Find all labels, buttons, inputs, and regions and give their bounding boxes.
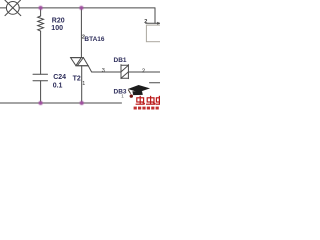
off-sheet component box — [146, 25, 161, 42]
watermark cap board — [128, 85, 150, 92]
svg-text:2: 2 — [82, 35, 85, 41]
wire bottom rail — [0, 102, 122, 104]
svg-text:1: 1 — [121, 94, 124, 99]
svg-text:R20: R20 — [52, 17, 65, 24]
svg-text:C24: C24 — [53, 74, 66, 81]
node junction top-left — [39, 6, 43, 10]
watermark cap crown — [132, 91, 142, 95]
lamp — [0, 0, 21, 16]
watermark char chong 3 partial — [155, 96, 163, 104]
svg-text:3: 3 — [102, 68, 105, 74]
svg-text:BTA16: BTA16 — [84, 36, 104, 43]
svg-text:DB3: DB3 — [114, 89, 127, 96]
svg-text:100: 100 — [51, 25, 63, 32]
svg-text:0.1: 0.1 — [53, 83, 63, 90]
watermark small red text — [134, 107, 159, 110]
wire right edge stub — [150, 82, 161, 84]
watermark char chong 1 — [136, 96, 145, 104]
svg-text:1: 1 — [82, 81, 85, 87]
resistor R20 — [38, 8, 44, 74]
node junction top-mid — [79, 6, 83, 10]
svg-text:T2: T2 — [73, 76, 81, 83]
watermark tassel — [128, 90, 130, 94]
wire off-sheet pin 2 — [146, 22, 160, 24]
svg-text:DB1: DB1 — [114, 57, 127, 64]
capacitor C24 — [33, 74, 48, 103]
triac T2 — [71, 8, 121, 103]
wire top rail — [19, 7, 155, 9]
diac DB1 — [121, 65, 160, 79]
wire right drop — [154, 8, 156, 23]
svg-text:2: 2 — [144, 19, 147, 25]
svg-text:2: 2 — [142, 69, 145, 75]
node junction bottom C24 — [39, 101, 43, 105]
off-sheet arrowhead — [157, 22, 160, 25]
node junction bottom T2 — [80, 101, 84, 105]
watermark char chong 2 — [146, 96, 155, 104]
